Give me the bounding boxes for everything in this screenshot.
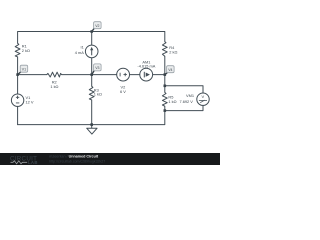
wire middle horizontal (left junction to R2) xyxy=(18,74,47,76)
ground xyxy=(87,125,97,135)
resistor R4 xyxy=(162,42,167,57)
wire left vertical (R1 bottom to V1 source top) xyxy=(17,57,19,94)
junction voltmeter top xyxy=(164,85,167,88)
svg-text:V: V xyxy=(201,94,204,99)
svg-text:V1: V1 xyxy=(22,67,26,71)
wire middle horizontal (R2 to V2 source) xyxy=(62,74,117,76)
svg-text:2 kΩ: 2 kΩ xyxy=(22,48,30,53)
node V4 xyxy=(165,73,167,75)
junction left middle xyxy=(16,73,19,76)
junction right middle xyxy=(164,73,167,76)
svg-text:VM1: VM1 xyxy=(186,93,194,98)
resistor R5 xyxy=(162,92,167,106)
resistor R3 xyxy=(89,86,94,100)
footer bar xyxy=(0,153,220,165)
svg-text:1 kΩ: 1 kΩ xyxy=(168,99,176,104)
junction center xyxy=(90,73,93,76)
junction ground xyxy=(90,123,93,126)
svg-text:12 V: 12 V xyxy=(26,100,34,105)
svg-text:6 V: 6 V xyxy=(120,89,126,94)
voltage source V2 xyxy=(117,68,130,81)
node V3 xyxy=(92,71,94,75)
junction top middle xyxy=(90,30,93,33)
wire right vertical R4-R5 xyxy=(164,56,166,92)
wire voltmeter bottom rail xyxy=(165,105,203,110)
wire R3 branch xyxy=(91,75,93,125)
svg-text:I1: I1 xyxy=(81,44,84,49)
svg-text:1 kΩ: 1 kΩ xyxy=(94,92,102,97)
resistor R1 xyxy=(15,43,20,57)
wire bottom rail xyxy=(18,106,165,124)
svg-text:http://circuitlab.com/c289hugk: http://circuitlab.com/c289hugk32k27 xyxy=(49,160,105,164)
footer logo zigzag xyxy=(11,161,28,164)
wire V2 to AM1 xyxy=(130,74,140,76)
svg-text:mzeentan / Unnamed Circuit: mzeentan / Unnamed Circuit xyxy=(49,155,99,159)
svg-text:-4.615 mA: -4.615 mA xyxy=(137,64,155,69)
wire current source branch top xyxy=(91,32,93,46)
node V1 xyxy=(18,72,21,75)
ammeter AM1 xyxy=(140,68,153,81)
svg-text:4 mA: 4 mA xyxy=(75,50,84,55)
svg-text:1 kΩ: 1 kΩ xyxy=(50,84,58,89)
svg-text:7.692 V: 7.692 V xyxy=(179,99,193,104)
svg-text:V2: V2 xyxy=(95,24,99,28)
wire AM1 to right junction xyxy=(153,74,165,76)
current source I1 xyxy=(85,45,98,58)
wire left vertical (V1 source bottom to bottom rail) xyxy=(17,106,19,124)
svg-text:2 kΩ: 2 kΩ xyxy=(169,50,177,55)
voltage source V1 xyxy=(11,94,23,106)
wire current source branch bottom xyxy=(91,58,93,75)
voltmeter VM1 xyxy=(197,93,209,105)
svg-text:LAB: LAB xyxy=(28,160,38,165)
node V2 xyxy=(92,28,94,31)
wire top rail xyxy=(18,32,165,44)
svg-text:V4: V4 xyxy=(168,68,172,72)
wire voltmeter top rail xyxy=(165,86,203,93)
svg-text:V3: V3 xyxy=(95,66,99,70)
junction voltmeter bottom xyxy=(164,109,167,112)
resistor R2 xyxy=(47,72,62,77)
